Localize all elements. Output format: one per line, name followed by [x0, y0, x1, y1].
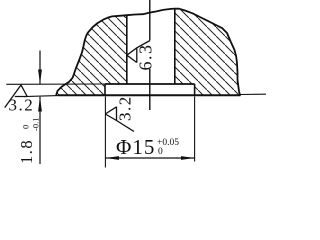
svg-text:-0.1: -0.1 — [31, 118, 41, 131]
svg-text:0: 0 — [158, 147, 163, 157]
svg-text:3.2: 3.2 — [9, 96, 35, 115]
svg-text:Φ15: Φ15 — [116, 135, 155, 159]
svg-text:6.3: 6.3 — [136, 44, 156, 71]
svg-text:3.2: 3.2 — [116, 95, 135, 121]
svg-text:0: 0 — [21, 125, 31, 129]
svg-text:1.8: 1.8 — [17, 139, 36, 164]
